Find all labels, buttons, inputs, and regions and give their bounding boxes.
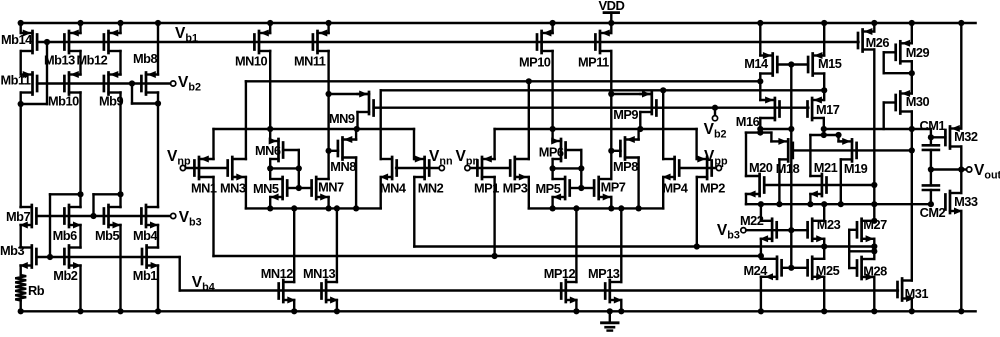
junction xyxy=(958,308,964,314)
junction xyxy=(155,20,161,26)
junction xyxy=(757,130,763,136)
junction xyxy=(928,201,934,207)
wire VDD rail xyxy=(21,22,976,24)
transistor M29 xyxy=(896,40,912,64)
junction xyxy=(694,243,700,249)
wire xyxy=(20,301,22,312)
wire xyxy=(759,23,761,56)
wire xyxy=(20,23,22,33)
wire xyxy=(960,170,962,194)
wire Vb3 right line xyxy=(746,229,808,231)
wire xyxy=(50,193,81,195)
svg-text:M32: M32 xyxy=(954,129,978,144)
transistor M22 xyxy=(760,219,777,243)
junction xyxy=(821,87,827,93)
transistor M18 xyxy=(778,138,792,162)
svg-text:M16: M16 xyxy=(736,114,760,129)
junction xyxy=(334,205,340,211)
wire xyxy=(212,177,214,256)
svg-text:MP12: MP12 xyxy=(544,266,576,281)
svg-text:M31: M31 xyxy=(905,286,929,301)
svg-text:M21: M21 xyxy=(814,160,838,175)
transistor M26 xyxy=(858,28,874,52)
wire xyxy=(355,158,357,209)
wire xyxy=(157,23,159,75)
transistor Mb8 xyxy=(141,71,158,95)
wire xyxy=(79,93,81,208)
svg-text:Mb11: Mb11 xyxy=(1,73,31,88)
transistor MN5 xyxy=(270,177,287,201)
wire xyxy=(20,266,22,276)
svg-text:MN9: MN9 xyxy=(329,111,355,126)
wire L6 left xyxy=(760,128,791,130)
transistor M24 xyxy=(761,257,782,281)
junction xyxy=(909,20,915,26)
junction xyxy=(267,20,273,26)
wire Vb1 line xyxy=(37,41,858,43)
junction xyxy=(871,243,877,249)
svg-text:Mb5: Mb5 xyxy=(95,228,119,243)
svg-text:VDD: VDD xyxy=(599,0,625,13)
junction xyxy=(788,265,794,271)
transistor M21 xyxy=(810,174,827,198)
transistor MN13 xyxy=(322,280,339,304)
node Vb3R xyxy=(741,228,746,233)
node Vb2R xyxy=(712,116,717,121)
svg-text:MN12: MN12 xyxy=(261,266,294,281)
svg-text:MN1: MN1 xyxy=(191,181,217,196)
wire xyxy=(823,74,825,101)
wire xyxy=(662,90,664,159)
junction xyxy=(44,39,50,45)
wire xyxy=(245,81,247,159)
wire xyxy=(911,112,913,281)
junction xyxy=(291,205,297,211)
transistor MN6 xyxy=(269,138,283,162)
junction xyxy=(578,185,584,191)
junction xyxy=(660,87,666,93)
wire L4 Vb2 line xyxy=(381,106,809,108)
node Vnn xyxy=(439,165,444,170)
node Vout xyxy=(967,167,972,172)
wire M29 gate xyxy=(884,51,896,53)
wire Vb4 line xyxy=(180,289,898,291)
wire xyxy=(413,177,415,247)
wire Vb3 line xyxy=(36,215,170,217)
wire xyxy=(823,247,825,259)
wire xyxy=(551,197,553,208)
transistor Mb7 xyxy=(20,205,37,229)
junction xyxy=(77,308,83,314)
wire xyxy=(575,300,577,311)
junction xyxy=(821,308,827,314)
wire xyxy=(848,230,850,268)
wire xyxy=(269,168,271,179)
transistor Mb4 xyxy=(141,205,158,229)
junction xyxy=(712,105,718,111)
junction xyxy=(18,20,24,26)
wire xyxy=(380,90,382,159)
svg-text:M20: M20 xyxy=(749,160,773,175)
wire xyxy=(790,65,792,268)
wire xyxy=(639,112,641,129)
transistor MN4 xyxy=(380,157,397,181)
junction xyxy=(757,20,763,26)
wire L7 xyxy=(746,131,772,133)
junction xyxy=(267,205,273,211)
transistor Mb2 xyxy=(64,246,81,270)
junction xyxy=(550,126,556,132)
wire xyxy=(911,299,913,312)
transistor M33 xyxy=(945,191,962,215)
junction xyxy=(788,61,794,67)
wire xyxy=(662,177,664,208)
wire xyxy=(49,194,51,257)
wire xyxy=(960,23,962,129)
transistor Mb14 xyxy=(21,30,37,54)
junction xyxy=(758,201,764,207)
junction xyxy=(618,308,624,314)
junction xyxy=(821,201,827,207)
wire xyxy=(336,208,338,282)
transistor M25 xyxy=(808,257,825,281)
svg-text:MP9: MP9 xyxy=(613,107,638,122)
wire xyxy=(849,250,874,252)
wire MP6 gate xyxy=(566,149,582,151)
wire Vnp gate line xyxy=(186,167,228,169)
junction xyxy=(129,80,135,86)
junction xyxy=(788,126,794,132)
transistor MP12 xyxy=(561,280,578,304)
wire xyxy=(759,118,761,133)
junction xyxy=(909,308,915,314)
junction xyxy=(928,166,934,172)
junction xyxy=(18,101,24,107)
svg-text:M28: M28 xyxy=(863,264,887,279)
wire xyxy=(884,72,912,74)
wire xyxy=(528,177,530,208)
svg-text:M33: M33 xyxy=(954,194,978,209)
wire xyxy=(759,74,761,101)
wire M32 gate xyxy=(931,136,946,138)
wire xyxy=(336,300,338,311)
svg-text:MP1: MP1 xyxy=(474,181,499,196)
wire xyxy=(770,133,772,142)
transistor Mb9 xyxy=(104,71,121,95)
junction xyxy=(353,205,359,211)
transistor MN12 xyxy=(279,280,296,304)
wire xyxy=(960,211,962,311)
junction xyxy=(117,308,123,314)
wire MN7 gate xyxy=(299,187,312,189)
wire xyxy=(269,23,271,33)
junction xyxy=(871,182,877,188)
junction xyxy=(492,253,498,259)
junction xyxy=(573,205,579,211)
wire MN9 source xyxy=(329,93,369,95)
svg-text:Mb9: Mb9 xyxy=(99,94,123,109)
junction xyxy=(871,308,877,314)
wire xyxy=(873,50,875,221)
wire xyxy=(873,23,875,32)
svg-text:MN13: MN13 xyxy=(303,266,336,281)
wire xyxy=(873,239,875,247)
wire xyxy=(823,118,825,129)
svg-text:CM1: CM1 xyxy=(920,118,946,133)
wire xyxy=(883,103,885,130)
wire xyxy=(771,140,779,142)
wire M18 M19 gate line xyxy=(793,149,912,151)
wire Vb2 line xyxy=(37,82,171,84)
wire MP9 source xyxy=(611,93,652,95)
wire xyxy=(528,81,530,159)
wire xyxy=(551,129,553,141)
transistor Mb10 xyxy=(64,71,80,95)
wire node bus2P xyxy=(529,207,663,209)
wire xyxy=(46,42,48,104)
wire xyxy=(119,225,121,311)
transistor MP13 xyxy=(605,280,622,304)
junction xyxy=(758,253,764,259)
wire MN6 gate xyxy=(283,149,299,151)
wire tail line xyxy=(214,255,761,257)
transistor M16 xyxy=(760,97,779,121)
svg-text:M25: M25 xyxy=(816,263,840,278)
junction xyxy=(291,308,297,314)
wire L7b xyxy=(810,134,838,136)
transistor Mb13 xyxy=(64,30,80,54)
junction xyxy=(758,308,764,314)
transistor MN8 xyxy=(338,136,356,160)
wire xyxy=(637,158,639,209)
wire xyxy=(823,129,825,135)
svg-text:M14: M14 xyxy=(744,56,769,71)
junction xyxy=(909,126,915,132)
junction xyxy=(326,20,332,26)
svg-text:M24: M24 xyxy=(744,263,769,278)
wire L2 xyxy=(381,89,825,91)
junction xyxy=(550,205,556,211)
wire xyxy=(270,167,299,169)
transistor MP9 xyxy=(640,91,656,116)
transistor M30 xyxy=(896,90,912,114)
wire xyxy=(714,108,716,116)
junction xyxy=(958,166,964,172)
svg-text:Mb4: Mb4 xyxy=(133,228,158,243)
wire xyxy=(610,23,612,33)
junction xyxy=(550,165,556,171)
transistor MN2 xyxy=(414,156,429,180)
svg-text:MP10: MP10 xyxy=(519,55,551,70)
node Vpn xyxy=(465,165,470,170)
junction xyxy=(821,20,827,26)
capacitor CM1 xyxy=(923,129,939,170)
junction xyxy=(47,254,53,260)
junction xyxy=(637,126,643,132)
wire xyxy=(580,150,582,168)
wire xyxy=(580,168,582,188)
wire node bus2 xyxy=(246,207,381,209)
wire xyxy=(873,247,875,259)
wire xyxy=(327,23,329,33)
transistor M27 xyxy=(857,219,874,243)
transistor MN11 xyxy=(313,30,329,54)
wire xyxy=(119,51,121,75)
transistor MN1 xyxy=(194,156,213,180)
transistor M19 xyxy=(841,138,857,162)
wire node line xyxy=(746,203,931,205)
wire MP9 gate xyxy=(656,106,663,108)
junction xyxy=(608,20,614,26)
junction xyxy=(757,78,763,84)
svg-text:CM2: CM2 xyxy=(920,205,946,220)
svg-text:M19: M19 xyxy=(844,161,868,176)
junction xyxy=(354,126,360,132)
junction xyxy=(807,201,813,207)
svg-text:Mb1: Mb1 xyxy=(133,268,157,283)
wire xyxy=(269,159,271,168)
node Vpp xyxy=(716,165,721,170)
wire xyxy=(551,159,553,168)
wire MP8 gate xyxy=(611,150,620,152)
junction xyxy=(821,243,827,249)
wire xyxy=(298,168,300,188)
wire xyxy=(298,150,300,168)
wire xyxy=(20,225,22,248)
junction xyxy=(550,20,556,26)
svg-text:M30: M30 xyxy=(906,94,930,109)
junction xyxy=(608,205,614,211)
transistor M23 xyxy=(808,219,825,243)
transistor MN10 xyxy=(254,30,270,54)
svg-text:MN5: MN5 xyxy=(253,181,279,196)
transistor Mb12 xyxy=(104,30,121,54)
transistor M14 xyxy=(760,52,777,76)
svg-text:MN2: MN2 xyxy=(418,181,444,196)
wire M28 gate xyxy=(849,267,856,269)
wire xyxy=(745,133,747,176)
junction xyxy=(573,308,579,314)
junction xyxy=(958,20,964,26)
junction xyxy=(608,91,614,97)
transistor M28 xyxy=(857,257,874,281)
junction xyxy=(326,91,332,97)
wire xyxy=(873,277,875,311)
wire MP7 gate xyxy=(581,187,594,189)
junction xyxy=(871,20,877,26)
resistor Rb xyxy=(15,275,26,301)
transistor M32 xyxy=(945,125,961,149)
wire xyxy=(493,129,495,159)
wire xyxy=(293,300,295,311)
transistor MP11 xyxy=(595,30,611,54)
svg-text:MN8: MN8 xyxy=(330,159,356,174)
transistor MP3 xyxy=(510,157,529,181)
wire xyxy=(157,93,159,208)
transistor M15 xyxy=(808,52,824,76)
svg-text:M29: M29 xyxy=(906,45,930,60)
junction xyxy=(835,132,841,138)
wire xyxy=(92,194,94,216)
wire xyxy=(620,300,622,311)
wire xyxy=(269,51,271,129)
junction xyxy=(821,126,827,132)
wire xyxy=(94,193,121,195)
junction xyxy=(909,70,915,76)
wire xyxy=(911,61,913,93)
svg-text:Mb8: Mb8 xyxy=(133,51,157,66)
svg-text:MP3: MP3 xyxy=(503,181,528,196)
wire bottom rail xyxy=(20,310,976,312)
transistor Mb5 xyxy=(104,205,121,229)
svg-text:M23: M23 xyxy=(817,217,841,232)
capacitor CM2 xyxy=(923,170,939,205)
transistor Mb6 xyxy=(64,205,81,229)
wire xyxy=(212,129,214,159)
wire MN8 gate xyxy=(329,150,338,152)
wire M30 gate xyxy=(884,101,896,103)
wire xyxy=(380,177,382,208)
wire xyxy=(760,256,762,259)
wire xyxy=(79,266,81,312)
svg-text:MP6: MP6 xyxy=(539,145,564,160)
wire xyxy=(823,204,825,221)
svg-text:MN6: MN6 xyxy=(255,143,281,158)
wire node busP xyxy=(495,128,697,130)
junction xyxy=(77,20,83,26)
transistor MP1 xyxy=(477,156,494,180)
wire MP5 gate xyxy=(570,187,582,189)
wire MN4 MN2 gate line xyxy=(396,167,439,169)
wire cascode line xyxy=(414,245,874,247)
wire xyxy=(620,208,622,282)
transistor MP8 xyxy=(620,136,638,160)
svg-text:M15: M15 xyxy=(818,56,842,71)
wire xyxy=(413,129,415,159)
junction xyxy=(578,165,584,171)
power VDD xyxy=(604,13,619,23)
svg-text:MP8: MP8 xyxy=(613,159,638,174)
svg-text:MP4: MP4 xyxy=(663,181,689,196)
wire xyxy=(132,102,158,104)
junction xyxy=(757,126,763,132)
svg-text:Mb3: Mb3 xyxy=(0,243,24,258)
wire M14 M15 gates xyxy=(777,63,808,65)
junction xyxy=(526,78,532,84)
transistor MP7 xyxy=(594,177,611,201)
wire xyxy=(839,140,841,142)
transistor M31 xyxy=(898,279,915,303)
wire xyxy=(20,93,22,105)
wire xyxy=(695,129,697,159)
wire xyxy=(131,84,133,104)
wire xyxy=(778,159,780,204)
wire M27 gate xyxy=(849,229,856,231)
wire xyxy=(610,197,612,208)
junction xyxy=(18,308,24,314)
wire xyxy=(575,208,577,282)
wire xyxy=(21,103,47,105)
wire xyxy=(551,168,553,179)
wire xyxy=(79,225,81,248)
wire xyxy=(911,23,913,43)
wire xyxy=(610,51,612,179)
transistor MP10 xyxy=(537,30,553,54)
junction xyxy=(607,308,613,314)
wire xyxy=(551,23,553,33)
svg-text:Mb10: Mb10 xyxy=(48,94,79,109)
wire xyxy=(551,51,553,129)
